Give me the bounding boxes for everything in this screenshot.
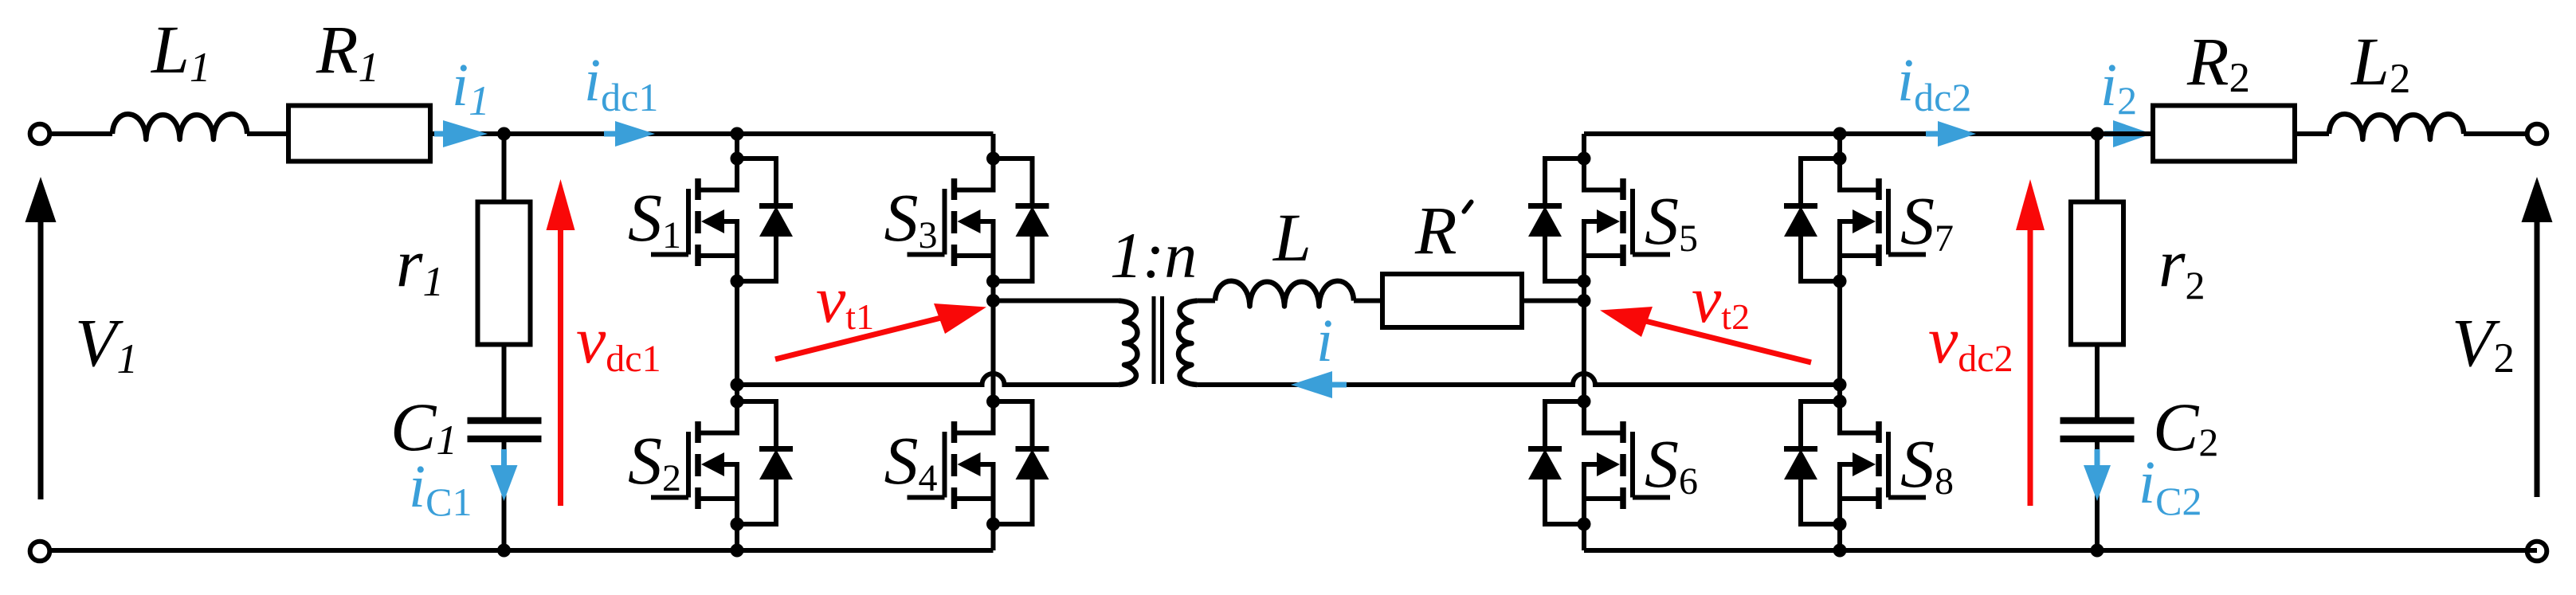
transistor S2 (MOSFET with body diode): [651, 395, 793, 531]
resistor r1: [478, 202, 531, 345]
wire L1 to R1: [247, 131, 288, 136]
arrow iC2 (blue, downward): [2084, 449, 2111, 501]
node bridge1 right-leg output tap: [986, 294, 1000, 307]
node C1-bottom junction: [497, 544, 511, 558]
svg-text:i1: i1: [452, 52, 490, 124]
wire L2 to terminal: [2464, 131, 2527, 136]
terminal output + (top-right): [2527, 124, 2547, 144]
node A (junction r1 branch): [497, 127, 511, 141]
transistor S4 (MOSFET with body diode): [908, 395, 1049, 531]
wire bridge2 left leg: [1582, 134, 1586, 550]
transistor S1 (MOSFET with body diode): [651, 152, 793, 288]
svg-text:S1: S1: [628, 179, 681, 256]
svg-text:idc1: idc1: [584, 47, 658, 119]
wire bridge1 left leg: [735, 134, 739, 550]
svg-text:vdc1: vdc1: [576, 303, 661, 380]
wire R1 to node A: [430, 131, 994, 136]
wire Rp to bridge2 left tap: [1522, 299, 1584, 303]
wire bottom rail right section: [1584, 548, 2537, 553]
transistor S6 (MOSFET with body diode): [1528, 395, 1670, 531]
wire bridge1 right tap to transformer primary (top): [994, 299, 1119, 303]
arrow vdc2 (red, upward): [2016, 179, 2045, 506]
wire secondary to L: [1198, 299, 1216, 303]
capacitor C2: [2060, 421, 2135, 439]
svg-text:R1: R1: [316, 11, 379, 91]
wire C2 to bottom rail: [2095, 442, 2100, 550]
arrow i2 (blue): [2104, 120, 2152, 147]
svg-text:C2: C2: [2153, 389, 2218, 465]
wire bottom rail left section: [50, 548, 994, 553]
arrow idc1 (blue): [604, 121, 655, 147]
wire top-left terminal to L1: [50, 131, 112, 136]
node bridge2 right-leg input tap: [1833, 378, 1847, 392]
wire node A down to r1: [502, 134, 507, 202]
wire bridge1 right leg: [991, 134, 996, 550]
resistor R1: [288, 106, 430, 162]
node left-leg bottom junction: [731, 544, 744, 558]
node bridge2 left-leg input tap: [1578, 294, 1591, 307]
svg-text:S5: S5: [1645, 182, 1698, 260]
svg-text:V1: V1: [75, 304, 138, 382]
wire top rail bridge2 to node B: [1584, 131, 2097, 136]
wire R2 to L2: [2295, 131, 2329, 136]
inductor L2: [2329, 114, 2464, 139]
svg-text:i2: i2: [2100, 52, 2137, 123]
wire node B to R2: [2097, 131, 2153, 136]
node B (junction r2 branch): [2091, 127, 2104, 141]
wire r2 to C2: [2095, 345, 2100, 421]
resistor R': [1382, 274, 1522, 327]
terminal input - (bottom-left): [30, 542, 50, 562]
arrow i1 (blue): [434, 120, 488, 147]
svg-text:S7: S7: [1900, 182, 1954, 260]
wire bridge1 left tap to transformer primary (bottom) with hop: [737, 374, 1119, 385]
svg-text:iC1: iC1: [409, 453, 472, 524]
transformer secondary winding: [1178, 301, 1197, 386]
svg-text:S2: S2: [628, 422, 681, 499]
svg-text:L1: L1: [150, 11, 210, 91]
svg-text:S3: S3: [884, 179, 938, 256]
arrow vt2 (red): [1600, 307, 1811, 362]
svg-text:S8: S8: [1900, 425, 1954, 503]
svg-text:vdc2: vdc2: [1928, 303, 2013, 380]
svg-text:V2: V2: [2452, 304, 2515, 382]
svg-text:S4: S4: [884, 422, 938, 499]
node bridge2 S8-leg bottom junction: [1833, 544, 1847, 558]
arrow idc2 (blue): [1926, 121, 1976, 147]
svg-text:R2: R2: [2186, 23, 2250, 101]
wire r1 to C1: [502, 345, 507, 421]
terminal output - (bottom-right): [2527, 542, 2547, 562]
svg-text:L: L: [1272, 199, 1312, 276]
resistor R2: [2153, 106, 2295, 162]
arrow V2 (output voltage): [2522, 177, 2553, 497]
inductor L (link): [1215, 281, 1354, 307]
transistor S3 (MOSFET with body diode): [908, 152, 1049, 288]
transformer primary winding: [1119, 301, 1137, 386]
arrow vt1 (red): [775, 303, 986, 359]
wire L to Rp: [1354, 299, 1382, 303]
transistor S7 (MOSFET with body diode): [1784, 152, 1926, 288]
node bridge2 S7-leg top junction: [1833, 127, 1847, 141]
node bridge1 top junction: [731, 127, 744, 141]
svg-text:R: R: [1414, 192, 1457, 268]
svg-text:r2: r2: [2158, 225, 2205, 307]
svg-text:vt2: vt2: [1692, 263, 1750, 337]
inductor L1: [112, 114, 247, 139]
node bridge1 left-leg output tap: [731, 378, 744, 392]
transistor S5 (MOSFET with body diode): [1528, 152, 1670, 288]
svg-text:S6: S6: [1645, 425, 1698, 503]
arrow iC1 (blue, downward): [491, 449, 518, 501]
terminal input + (top-left): [30, 124, 50, 144]
svg-text:L2: L2: [2350, 23, 2410, 102]
arrow i link (blue, leftward): [1291, 371, 1347, 398]
arrow vdc1 (red, upward): [547, 179, 575, 506]
wire node B down to r2: [2095, 134, 2100, 202]
wire bridge2 right leg: [1837, 134, 1842, 550]
node C2-bottom junction: [2091, 544, 2104, 558]
resistor r2: [2071, 202, 2123, 345]
svg-text:idc2: idc2: [1897, 47, 1971, 119]
svg-text:r1: r1: [396, 225, 444, 305]
svg-text:1:n: 1:n: [1110, 219, 1197, 292]
transformer core: [1154, 296, 1163, 384]
wire C1 to bottom rail: [502, 442, 507, 550]
svg-text:i: i: [1316, 307, 1333, 374]
capacitor C1: [468, 421, 542, 439]
wire transformer secondary bottom to bridge2 right tap with hop: [1198, 374, 1841, 385]
svg-text:vt1: vt1: [816, 263, 874, 337]
transistor S8 (MOSFET with body diode): [1784, 395, 1926, 531]
arrow V1 (input voltage): [25, 177, 57, 499]
